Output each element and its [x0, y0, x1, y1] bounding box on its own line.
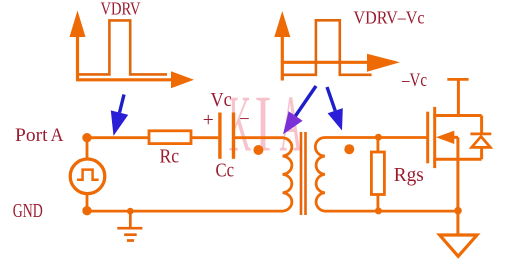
VDRV-Vc pulse trace [284, 20, 372, 75]
transformer T1 primary winding with top lead and bottom rail to GND node [87, 138, 292, 211]
transformer T1 secondary winding with top lead to gate and bottom rail to source node [315, 138, 458, 212]
VDRV pulse trace [79, 20, 167, 74]
svg-text:Rc: Rc [160, 145, 180, 167]
wire MOSFET source down to ground [456, 137, 459, 235]
body diode D1 cathode bar [470, 132, 491, 135]
VDRV-Vc waveform horizontal axis arrow [281, 54, 400, 72]
polarity dot primary [253, 145, 263, 155]
wire pulse source to GND rail [86, 193, 89, 211]
svg-text:VDRV: VDRV [101, 0, 141, 18]
node Rgs bottom [375, 207, 382, 214]
VDRV-Vc waveform vertical axis arrow [274, 11, 290, 81]
transformer core [301, 132, 306, 215]
watermark KIA [229, 79, 303, 169]
svg-text:Port: Port [15, 125, 48, 146]
svg-text:Cc: Cc [216, 160, 235, 182]
ground symbol left (earth) [117, 211, 142, 240]
annotation arrow to Port A node [111, 95, 128, 136]
resistor Rgs with stubs [371, 138, 384, 211]
VDRV waveform horizontal axis arrow [76, 71, 194, 88]
svg-text:I: I [255, 79, 272, 169]
node Rgs top [375, 134, 382, 141]
annotation arrow to secondary dot end [327, 87, 343, 131]
node source junction [454, 207, 462, 215]
MOSFET Q1 drain top bar [447, 78, 468, 81]
pulse source V1 [70, 159, 105, 194]
svg-text:A: A [51, 125, 64, 146]
svg-text:−: − [239, 109, 250, 130]
MOSFET Q1 gate bar [426, 112, 429, 164]
node ground tap [127, 208, 134, 215]
svg-text:VDRV–Vc: VDRV–Vc [354, 7, 425, 27]
node GND [82, 206, 91, 215]
node Port A [82, 133, 91, 142]
MOSFET Q1 arrow stub to source [453, 136, 458, 139]
wire Port A down to pulse source [86, 138, 89, 160]
svg-text:GND: GND [13, 200, 43, 222]
MOSFET Q1 drain lead [457, 79, 460, 117]
MOSFET Q1 channel bar and body box [433, 107, 481, 168]
svg-text:Vc: Vc [211, 89, 232, 111]
ground symbol right (triangle) [440, 235, 477, 256]
wire top left: Port A to Cc left plate [87, 136, 218, 139]
annotation arrow to primary dot end [283, 86, 316, 134]
svg-text:+: + [203, 110, 214, 131]
polarity dot secondary [344, 144, 354, 154]
svg-text:–Vc: –Vc [401, 71, 427, 91]
resistor Rc [149, 131, 191, 144]
capacitor Cc [220, 113, 234, 159]
VDRV waveform vertical axis arrow [70, 11, 86, 81]
MOSFET Q1 source arrow [436, 131, 454, 144]
svg-text:Rgs: Rgs [394, 164, 424, 186]
body diode D1 triangle [472, 137, 491, 148]
